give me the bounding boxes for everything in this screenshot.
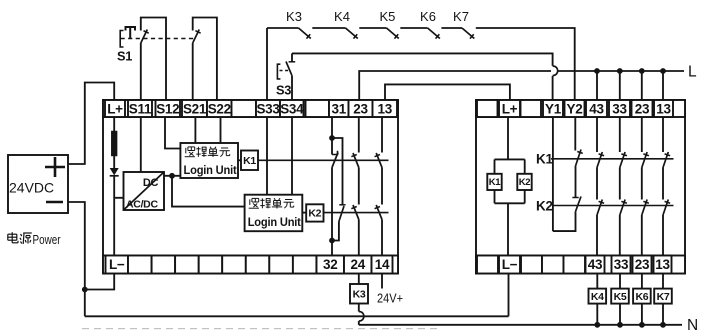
contact K6 tick (436, 34, 440, 38)
contact K4 tick (353, 34, 357, 38)
svg-text:K5: K5 (614, 291, 627, 303)
unit B bottom terminal band (476, 256, 685, 274)
minus symbol of supply (46, 201, 63, 204)
terminal L+ (unit A top) (105, 100, 125, 117)
wire L line drop to terminal x597 (596, 71, 598, 100)
wire fuse to diode (113, 156, 115, 169)
svg-text:L+: L+ (502, 101, 518, 116)
wire L line drop to terminal x641 (641, 71, 643, 100)
contact K2 row tick x619 (621, 201, 626, 203)
wire chain segment before K4 (312, 27, 345, 29)
terminal blank (unit A bottom) (269, 256, 293, 274)
svg-text:L+: L+ (107, 101, 123, 116)
wire 23 up to L line (359, 71, 551, 100)
wire K5 to N line (619, 304, 621, 325)
wire S1 loop S11-S12 (141, 18, 166, 101)
contact K2 row blade col 13 (376, 205, 382, 220)
svg-text:S22: S22 (208, 101, 231, 116)
contact A fixed elbow (332, 151, 338, 155)
wire U2 to K2 coil (302, 212, 306, 214)
svg-text:L−: L− (502, 257, 518, 272)
contact K2 row blade col 23 (353, 205, 359, 220)
logic unit U2 box (245, 195, 303, 232)
wire col x619 middle (unit B) (619, 168, 621, 200)
relay coil K3 box (350, 284, 368, 304)
svg-text:S21: S21 (183, 101, 207, 116)
terminal S11 (unit A top) (128, 100, 152, 117)
wire K1 coil to bottom rail (494, 190, 496, 203)
svg-text:Y1: Y1 (545, 101, 562, 116)
contact K1 row tick col 13 (375, 155, 380, 157)
safety relay unit A outline (103, 100, 398, 274)
relay coil K7 box (654, 289, 672, 304)
terminal blank (unit B bottom) (521, 256, 542, 274)
contact K1 row tick (Y path) (577, 152, 583, 154)
svg-text:S1: S1 (117, 49, 132, 64)
wire 24 to K3 coil (358, 274, 360, 285)
wire diode down to L- terminal (113, 176, 115, 256)
svg-text:S34: S34 (280, 101, 304, 116)
relay coil K1 box (241, 151, 258, 171)
wire L+ to fuse (113, 117, 115, 132)
contact K4 blade (346, 28, 358, 39)
svg-text:K4: K4 (334, 9, 350, 24)
label U2 逻辑单元 (249, 207, 259, 209)
contact K2 row tick x641 (643, 201, 648, 203)
contact S1b tick (195, 31, 200, 34)
terminal 33 (unit B top) (609, 100, 630, 117)
svg-text:K6: K6 (420, 9, 436, 24)
wire S21 into logic unit 1 (194, 117, 196, 143)
relay coil K6 box (633, 289, 651, 304)
terminal blank (unit A top) (232, 100, 257, 117)
wire chain to Y2 (476, 28, 575, 100)
contact K1 row blade x641 (642, 152, 647, 168)
logic unit U1 box (180, 143, 238, 178)
24VDC power supply box (8, 155, 68, 213)
hop Y1 wire over L line (553, 66, 558, 76)
wire terminal to K5 coil (619, 274, 621, 289)
svg-text:S11: S11 (129, 101, 152, 116)
terminal 32 (unit A bottom) (317, 256, 345, 274)
wire S34 lower stub (291, 76, 293, 100)
wire 0V bus to unit B L- (508, 274, 510, 317)
contact K1 row blade x619 (620, 152, 625, 168)
terminal S22 (unit A top) (207, 100, 232, 117)
svg-text:N: N (687, 317, 698, 333)
terminal blank (unit B top) (521, 100, 542, 117)
wire jog branch return (332, 222, 339, 241)
terminal blank (unit A bottom) (293, 256, 317, 274)
K2 row link line (554, 205, 674, 207)
wire rail to K2 coil (524, 159, 526, 173)
AC/DC converter U3 (124, 172, 165, 210)
contact K1 row tick col 23 (351, 155, 356, 157)
svg-text:S12: S12 (156, 101, 179, 116)
unit B top terminal band (476, 100, 685, 117)
wire col x597 upper stub (unit B) (596, 117, 598, 152)
wire 13 to unit B L+ (385, 84, 510, 100)
faint scan artifact line (82, 328, 442, 330)
svg-text:K2: K2 (308, 208, 321, 220)
wire bottom rail to L- (507, 203, 509, 255)
terminal S34 (unit A top) (280, 100, 304, 117)
svg-text:K1: K1 (243, 155, 256, 167)
wire S34 into logic unit 2 (291, 117, 293, 195)
terminal Y1 (unit B top) (543, 100, 563, 117)
terminal blank (unit B bottom) (564, 256, 586, 274)
contact S3 blade (286, 62, 292, 76)
wire S3 upper stub (291, 53, 293, 62)
contact S1a blade (141, 30, 148, 44)
plus symbol of supply (45, 166, 65, 169)
svg-text:23: 23 (635, 101, 650, 116)
svg-text:13: 13 (656, 101, 671, 116)
wire col x663 upper stub (unit B) (662, 117, 664, 152)
contact K3 tick (306, 34, 310, 38)
svg-text:13: 13 (378, 101, 393, 116)
terminal 13 (unit A top) (373, 100, 398, 117)
svg-text:K5: K5 (379, 9, 395, 24)
wire chain segment before K7 (441, 27, 462, 29)
terminal Y2 (unit B top) (565, 100, 585, 117)
wire node down (col A) (331, 138, 333, 155)
wire L line right part (557, 70, 684, 72)
wire col 23 middle (358, 168, 360, 205)
wire K2 coil to bottom rail (524, 190, 526, 203)
junction dot node 31a (329, 135, 335, 141)
wire S21 lower stub (192, 43, 194, 100)
wire unit B L+ to coil rail (507, 117, 509, 159)
terminal L− (unit A bottom) (106, 256, 129, 274)
hop K3 wire over 0V bus (359, 312, 364, 322)
contact K2 row blade x619 (620, 200, 625, 216)
junction dot N line K5 (617, 322, 623, 328)
contact K6 blade (428, 28, 440, 39)
svg-text:K4: K4 (591, 291, 604, 303)
svg-text:Power: Power (33, 232, 62, 247)
S1 mushroom head (126, 27, 136, 31)
wire L- stub unit A (85, 274, 114, 290)
wire col x597 middle (unit B) (596, 168, 598, 200)
terminal blank (unit A bottom) (199, 256, 223, 274)
svg-text:K6: K6 (635, 291, 648, 303)
K1 link line (258, 159, 389, 161)
coil bottom rail (495, 202, 525, 204)
svg-text:DC: DC (143, 177, 159, 189)
svg-text:K7: K7 (453, 9, 469, 24)
wire col x641 middle (unit B) (641, 168, 643, 200)
wire L line drop to terminal x663 (662, 71, 664, 100)
contact K5 tick (394, 34, 398, 38)
svg-text:K2: K2 (519, 177, 531, 188)
contact K1 row blade col 23 (353, 153, 359, 168)
terminal 33 (unit B bottom) (612, 256, 631, 274)
wire Y path middle (575, 166, 577, 198)
wire + from supply to L+ (68, 83, 114, 165)
svg-text:32: 32 (323, 257, 337, 272)
wire S33 up to chain (266, 28, 268, 100)
svg-text:24VDC: 24VDC (9, 180, 54, 196)
terminal blank (unit A bottom) (152, 256, 176, 274)
svg-text:Login Unit: Login Unit (248, 217, 301, 229)
wire node to 32 (331, 241, 333, 256)
relay coil K2 box (306, 204, 323, 221)
terminal S21 (unit A top) (182, 100, 207, 117)
svg-text:L: L (688, 64, 697, 81)
wire Y1 drop to terminal (552, 76, 554, 100)
contact S1a tick (144, 31, 149, 34)
terminal blank (unit B bottom) (477, 256, 498, 274)
wire S22 into logic unit 1 (220, 117, 222, 143)
wire - from supply down (68, 202, 85, 316)
relay coil K5 box (611, 289, 629, 304)
junction dot DC output node (169, 173, 175, 179)
wire Y1 U-turn (553, 212, 576, 232)
wire DC output (164, 175, 172, 177)
terminal blank (unit B top) (477, 100, 498, 117)
terminal 13 (unit B top) (654, 100, 673, 117)
junction dot on - wire (82, 287, 88, 293)
contact K2 row blade (Y path) (576, 197, 582, 212)
terminal 43 (unit B bottom) (586, 256, 605, 274)
contact K7 blade (462, 28, 474, 39)
svg-text:K1: K1 (536, 152, 553, 167)
contact K1 row blade (Y path) (576, 150, 582, 167)
contact K2 row tick x663 (665, 201, 670, 203)
wire S12 into logic unit 1 (165, 117, 180, 149)
wire col 13 to 14 (381, 220, 383, 256)
wire col x619 to bottom terminal (unit B) (619, 215, 621, 256)
wire 23 upper stub (358, 117, 360, 153)
unit A top terminal band (103, 100, 398, 117)
contact K1 row blade col 13 (376, 153, 382, 168)
svg-text:S3: S3 (276, 83, 291, 98)
terminal blank (unit B bottom) (542, 256, 564, 274)
wire Y1 into unit (552, 117, 554, 231)
svg-text:24: 24 (351, 257, 366, 272)
wire 31 to node (331, 117, 333, 138)
svg-text:43: 43 (588, 257, 603, 272)
contact A row1 blade (332, 153, 338, 168)
relay coil K4 box (589, 289, 607, 304)
contact K3 blade (299, 28, 311, 39)
terminal 13 (unit B bottom) (654, 256, 672, 274)
K2 link line (324, 212, 389, 214)
terminal 23 (unit B bottom) (633, 256, 652, 274)
svg-text:K2: K2 (536, 199, 553, 214)
terminal 24 (unit A bottom) (344, 256, 372, 274)
junction dot N line K7 (660, 322, 666, 328)
wire col x619 upper stub (unit B) (619, 117, 621, 152)
terminal blank (unit A bottom) (246, 256, 269, 274)
coil top rail (495, 158, 525, 160)
wire U1 to K1 coil (238, 159, 241, 161)
terminal 43 (unit B top) (586, 100, 607, 117)
contact K2 row blade x597 (597, 200, 602, 216)
junction dot L line x619 (617, 68, 623, 74)
wire S33 into logic unit 2 (266, 117, 268, 195)
junction dot L line x663 (660, 68, 666, 74)
label U1 逻辑单元 (185, 156, 195, 158)
wire S1 loop S21-S22 (193, 18, 217, 101)
svg-text:S33: S33 (256, 101, 280, 116)
terminal blank (unit A bottom) (175, 256, 199, 274)
terminal 23 (unit B top) (632, 100, 653, 117)
wire chain segment before K6 (400, 27, 427, 29)
relay coil K1 box (unit B) (487, 174, 501, 190)
junction dot L line x597 (594, 68, 600, 74)
junction dot N line K6 (639, 322, 645, 328)
wire 13 upper stub (381, 117, 383, 153)
contact K1 row tick x619 (621, 154, 626, 156)
svg-text:43: 43 (589, 101, 604, 116)
contact K1 row tick x663 (665, 154, 670, 156)
wire terminal to K7 coil (662, 274, 664, 289)
junction dot L line x641 (639, 68, 645, 74)
junction dot N line K4 (594, 322, 600, 328)
terminal blank (unit A bottom) (128, 256, 152, 274)
wire S11 lower stub (140, 43, 142, 100)
svg-text:24V+: 24V+ (377, 292, 403, 306)
svg-text:Login Unit: Login Unit (184, 165, 237, 177)
svg-text:33: 33 (612, 101, 627, 116)
wire K7 to N line (662, 304, 664, 325)
wire col 13 middle (381, 168, 383, 205)
wire K3 to N line (358, 321, 360, 325)
wire L line drop to terminal x619 (619, 71, 621, 100)
wire S34 to Y1 (292, 53, 553, 65)
contact K2 row tick (Y path) (572, 197, 578, 199)
contact K5 blade (387, 28, 399, 39)
contact A row2 tick (339, 204, 345, 206)
wire col x663 to bottom terminal (unit B) (662, 215, 664, 256)
diode D1 (110, 168, 119, 175)
svg-text:23: 23 (635, 257, 650, 272)
wire chain segment before K3 (267, 27, 299, 29)
contact K2 row blade x641 (642, 200, 647, 216)
junction dot node 32a (329, 238, 335, 244)
relay coil K2 box (unit B) (517, 174, 531, 190)
contact K1 row tick x641 (643, 154, 648, 156)
wire col x641 to bottom terminal (unit B) (641, 215, 643, 256)
S1 actuator bracket (120, 31, 123, 48)
svg-text:K1: K1 (489, 177, 502, 188)
unit A bottom terminal band (103, 256, 398, 274)
wire col x641 upper stub (unit B) (641, 117, 643, 152)
wire terminal to K6 coil (641, 274, 643, 289)
wire rail to K1 coil (494, 159, 496, 173)
wire col x663 middle (unit B) (662, 168, 664, 200)
wire node to logic unit 1 (172, 175, 180, 177)
contact K2 row tick col 13 (375, 207, 380, 209)
contact K1 row tick x597 (599, 154, 604, 156)
expansion unit B outline (476, 100, 685, 274)
wire S11 to AC/DC (140, 117, 142, 172)
wire K6 to N line (641, 304, 643, 325)
0V bus along bottom (85, 315, 509, 317)
contact S3 tick (289, 61, 296, 63)
wire col 23 to 24 (358, 220, 360, 256)
S3 actuator link (dashed) (280, 70, 289, 72)
svg-text:AC/DC: AC/DC (126, 198, 158, 210)
S3 actuator bracket (277, 64, 280, 79)
terminal blank (unit A bottom) (222, 256, 246, 274)
wire 14 stub 24V+ (381, 274, 383, 289)
contact K1 row blade x663 (663, 152, 668, 168)
svg-text:K3: K3 (353, 289, 366, 301)
S1 actuator link (dashed) (121, 38, 195, 40)
terminal S33 (unit A top) (256, 100, 280, 117)
wire node down to logic unit 2 (172, 176, 245, 207)
svg-text:13: 13 (655, 257, 670, 272)
wire K4 to N line (596, 304, 598, 325)
terminal 31 (unit A top) (329, 100, 349, 117)
terminal 14 (unit A bottom) (372, 256, 393, 274)
wire jog branch col A (332, 138, 343, 205)
K1 row link line (551, 158, 674, 160)
wire col A middle (331, 168, 333, 241)
terminal L− (unit B bottom) (499, 256, 520, 274)
terminal L+ (unit B top) (499, 100, 520, 117)
svg-text:31: 31 (332, 101, 347, 116)
svg-text:K3: K3 (286, 9, 302, 24)
contact S1b blade (193, 30, 200, 44)
contact A row2 blade (339, 206, 344, 222)
terminal blank (unit A top) (306, 100, 330, 117)
svg-text:Y2: Y2 (567, 101, 583, 116)
wire chain segment before K5 (359, 27, 386, 29)
label 电源Power (8, 233, 17, 235)
svg-text:23: 23 (353, 101, 368, 116)
wire col x597 to bottom terminal (unit B) (596, 215, 598, 256)
contact K2 row tick col 23 (351, 207, 356, 209)
svg-text:L−: L− (109, 257, 125, 272)
terminal 23 (unit A top) (349, 100, 373, 117)
svg-text:33: 33 (614, 257, 629, 272)
svg-text:K7: K7 (657, 291, 670, 303)
wire into AC/DC input (114, 197, 123, 199)
N line (359, 324, 682, 326)
terminal S12 (unit A top) (156, 100, 181, 117)
contact K7 tick (470, 34, 474, 38)
contact K2 row blade x663 (663, 200, 668, 216)
wire K3 down (358, 304, 360, 312)
wire Y2 into unit (574, 117, 576, 151)
contact K2 row tick x597 (599, 201, 604, 203)
contact K1 row blade x597 (597, 152, 602, 168)
fuse F1 (112, 132, 117, 156)
svg-text:14: 14 (375, 257, 390, 272)
wire terminal to K4 coil (596, 274, 598, 289)
